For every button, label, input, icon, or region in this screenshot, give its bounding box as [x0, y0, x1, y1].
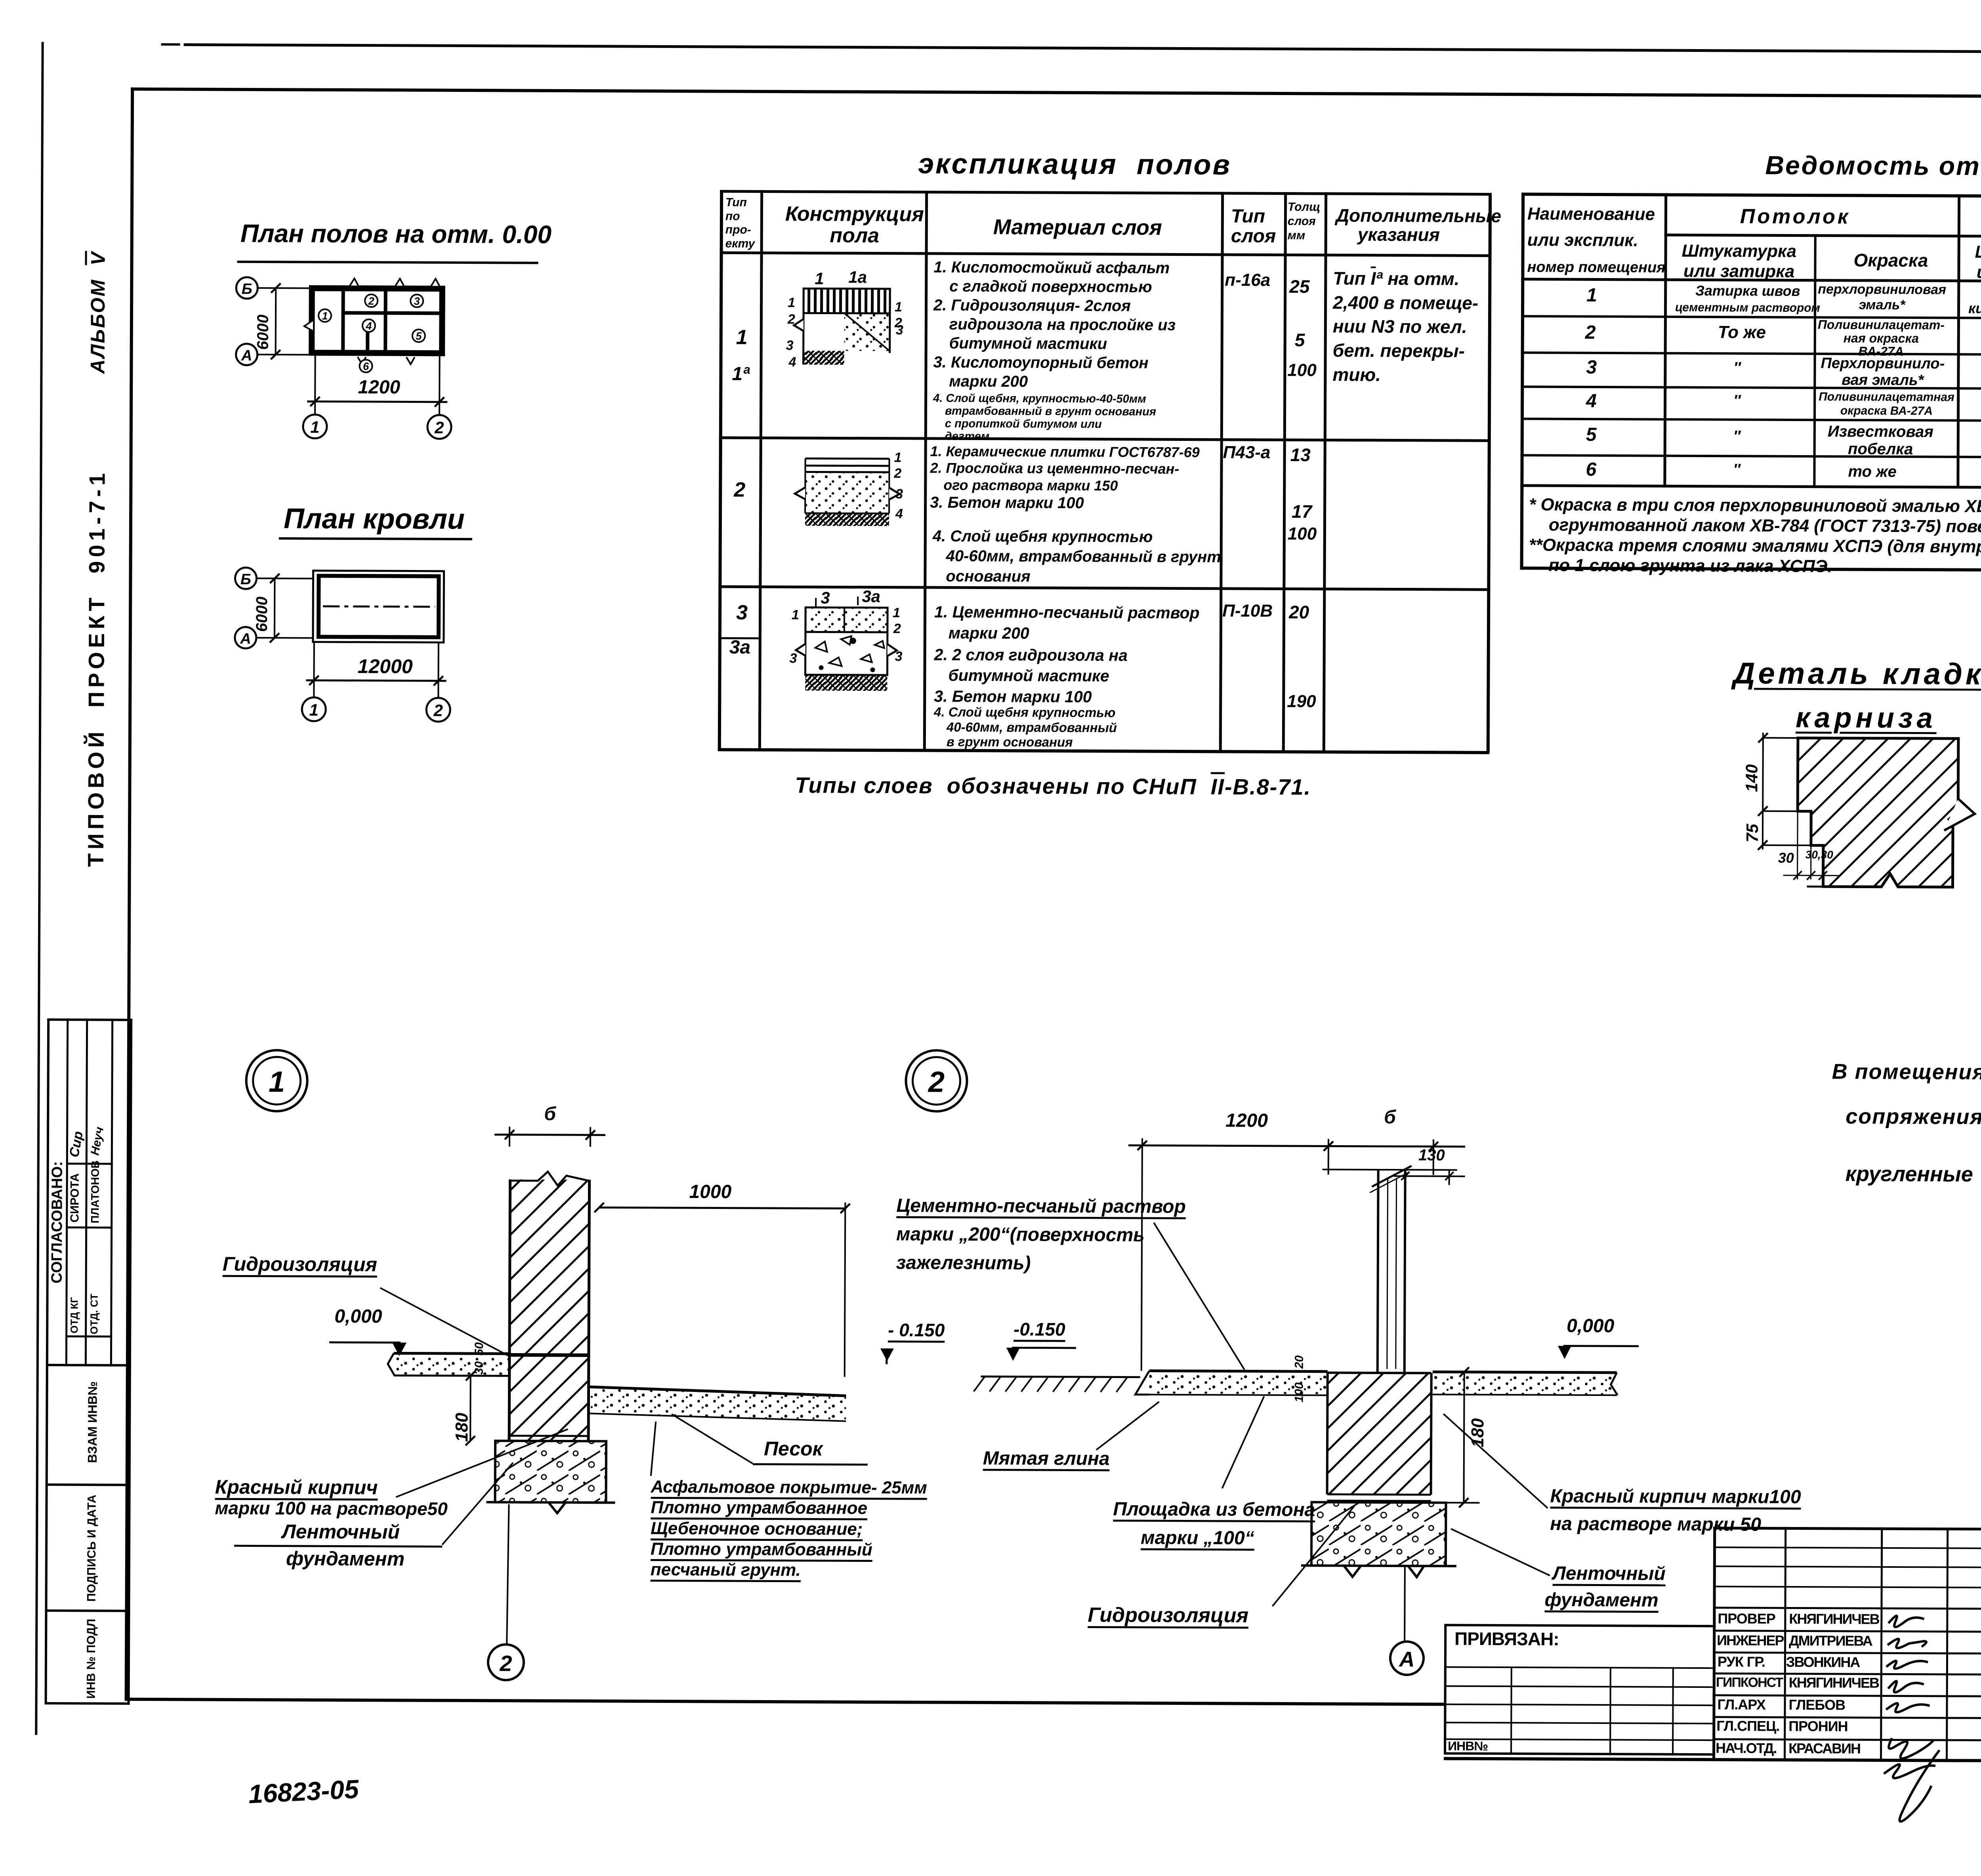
svg-text:1а: 1а	[848, 268, 867, 286]
svg-text:1: 1	[893, 605, 900, 620]
svg-text:1: 1	[895, 299, 902, 315]
svg-text:1: 1	[309, 701, 319, 719]
svg-text:1: 1	[310, 418, 320, 437]
svg-text:2: 2	[368, 295, 374, 307]
svg-text:2: 2	[499, 1651, 512, 1676]
svg-text:2: 2	[787, 312, 795, 327]
svg-text:6: 6	[363, 360, 369, 372]
svg-text:4: 4	[365, 320, 372, 332]
svg-text:2: 2	[893, 466, 901, 481]
svg-text:1: 1	[322, 310, 328, 322]
svg-text:2: 2	[434, 418, 444, 437]
svg-text:1: 1	[792, 607, 799, 622]
svg-text:2: 2	[928, 1066, 945, 1098]
svg-text:1: 1	[269, 1065, 285, 1098]
svg-text:3а: 3а	[862, 587, 880, 606]
svg-text:5: 5	[416, 330, 422, 342]
svg-text:4: 4	[895, 506, 903, 521]
svg-text:3: 3	[895, 486, 903, 501]
svg-text:1: 1	[815, 269, 824, 288]
svg-text:А: А	[240, 631, 251, 647]
svg-text:3: 3	[895, 649, 903, 664]
svg-text:А: А	[241, 347, 252, 364]
svg-text:3: 3	[414, 296, 420, 307]
svg-text:2: 2	[433, 701, 443, 720]
svg-text:3: 3	[786, 338, 794, 353]
svg-text:3: 3	[821, 588, 830, 607]
svg-text:Б: Б	[240, 571, 251, 588]
svg-text:1: 1	[788, 295, 795, 310]
svg-text:1: 1	[894, 450, 902, 465]
svg-text:Б: Б	[242, 281, 252, 297]
svg-text:А: А	[1398, 1647, 1414, 1671]
svg-text:2: 2	[893, 621, 901, 636]
svg-text:3: 3	[790, 651, 797, 666]
svg-text:3: 3	[896, 322, 903, 337]
svg-text:4: 4	[788, 355, 796, 370]
